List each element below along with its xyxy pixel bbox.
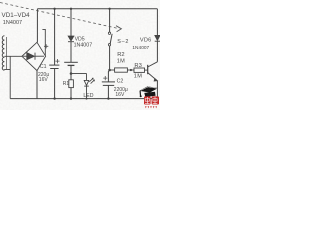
- switch S upper contact: [108, 32, 110, 34]
- wire: bottom rail: [10, 98, 157, 100]
- wire node to LED branch: [71, 73, 87, 75]
- diode VD5: [68, 36, 74, 42]
- C2 branch wire: [108, 70, 109, 82]
- capacitor C1 lower wire: [54, 69, 56, 99]
- resistor R1 bottom lead: [70, 88, 72, 99]
- transistor VT base bar: [147, 65, 149, 74]
- wire: left drop to bottom rail: [9, 56, 11, 98]
- wire battery to node: [70, 65, 72, 73]
- transistor VT collector: [148, 62, 158, 67]
- transformer core line: [5, 37, 7, 70]
- node dot switch top: [108, 8, 110, 10]
- diode VD5 branch upper wire: [70, 9, 72, 36]
- wire: right rail to collector: [156, 41, 158, 62]
- node dot between R2 R3: [130, 69, 132, 71]
- watermark mortarboard cap: [139, 86, 158, 97]
- transformer T winding: [2, 36, 4, 70]
- node dot battery/R1/LED: [70, 72, 73, 75]
- wire switch to R2 node: [109, 46, 111, 70]
- bridge + output stub: [42, 29, 45, 55]
- watermark red glyph 2: [152, 96, 159, 104]
- wire: transformer upper terminal to bridge: [4, 55, 22, 57]
- wire: top rail: [37, 8, 157, 10]
- wire: bridge top lead: [36, 9, 38, 43]
- node dot bottom C2: [107, 97, 109, 99]
- LED emission arrows: [89, 78, 94, 83]
- wire VD5 to battery: [70, 42, 72, 63]
- battery GB: [64, 62, 78, 65]
- wire: right rail upper: [156, 9, 158, 36]
- wire R3 to transistor base: [145, 69, 148, 71]
- bridge rectifier VD1-VD4 diamond: [22, 42, 46, 70]
- capacitor C1 plus sign: [55, 59, 59, 63]
- node dot bottom C1: [53, 97, 55, 99]
- capacitor C1 plates: [49, 65, 59, 68]
- node dot R2: [108, 69, 111, 72]
- wire node to R2: [110, 69, 115, 71]
- dashed leader arrow from VD1~VD4 label: [0, 3, 121, 32]
- watermark red www marks: [145, 106, 157, 108]
- diode VD6: [155, 35, 160, 41]
- switch S lower contact: [108, 44, 110, 46]
- resistor R3 body: [134, 68, 145, 72]
- switch S branch wire: [109, 9, 111, 32]
- LED upper lead: [86, 74, 88, 81]
- switch S lever: [110, 34, 112, 44]
- LED symbol: [84, 80, 89, 86]
- bridge + sign: [44, 44, 48, 48]
- capacitor C2 lower wire: [107, 85, 109, 98]
- resistor R1 body: [69, 80, 74, 88]
- capacitor C2 plus sign: [103, 76, 107, 80]
- wire: emitter to bottom rail: [156, 81, 158, 99]
- resistor R2 body: [115, 68, 128, 72]
- capacitor C2 plates: [102, 82, 115, 86]
- node dot VD5 top: [70, 8, 72, 10]
- wire R2 to R3: [127, 69, 134, 71]
- node dot C1 top: [53, 8, 55, 10]
- watermark red glyph 1: [144, 96, 151, 104]
- node dot bottom R1: [70, 97, 72, 99]
- bridge internal diode: [23, 53, 44, 60]
- resistor R1 lead: [70, 74, 72, 80]
- transistor VT emitter with arrow: [148, 73, 158, 81]
- capacitor C1 branch wire upper: [54, 9, 56, 65]
- wire: bridge bottom lead: [36, 71, 38, 99]
- node dot bottom LED: [86, 98, 88, 100]
- wire: transformer lower terminal hook: [4, 69, 10, 71]
- LED lower lead: [86, 86, 88, 99]
- watermark cap board highlight: [141, 87, 157, 91]
